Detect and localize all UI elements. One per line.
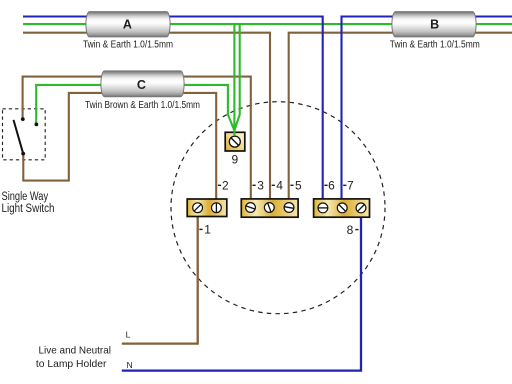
switch contact node (brown) xyxy=(21,117,25,121)
terminal block 3 xyxy=(314,199,370,217)
cable sheath A xyxy=(86,12,170,37)
wire: top green earth continuous xyxy=(23,23,512,25)
svg-text:Twin & Earth 1.0/1.5mm: Twin & Earth 1.0/1.5mm xyxy=(390,40,480,51)
wire: top brown from cable A down to terminal 4 xyxy=(23,33,270,199)
label 1 with tick xyxy=(199,228,202,230)
wire: top blue from cable B to node 7 corner xyxy=(342,17,512,199)
wire: brown lamp live from terminal 1 xyxy=(122,217,198,344)
svg-text:C: C xyxy=(137,78,146,92)
wire: blue lamp neutral from terminal 8 xyxy=(122,217,361,371)
wire: switch brown loop to terminal 2 xyxy=(23,93,216,199)
svg-text:5: 5 xyxy=(295,179,302,193)
label 5 with tick xyxy=(290,184,293,186)
wire: cable C top brown from switch to terminal 3 xyxy=(23,77,251,200)
switch lever xyxy=(14,120,24,153)
wire: green earth from cable C into terminal 9 xyxy=(36,85,234,131)
ceiling rose dashed circle xyxy=(171,102,385,314)
wire: top brown from cable B down to terminal 5 xyxy=(289,33,512,199)
svg-text:Twin Brown & Earth 1.0/1.5mm: Twin Brown & Earth 1.0/1.5mm xyxy=(85,100,200,111)
svg-text:6: 6 xyxy=(328,179,335,193)
label 4 with tick xyxy=(272,184,275,186)
svg-text:Light Switch: Light Switch xyxy=(2,203,55,215)
svg-text:Live and Neutral: Live and Neutral xyxy=(39,344,112,356)
svg-text:4: 4 xyxy=(276,179,283,193)
svg-text:9: 9 xyxy=(231,153,238,167)
label 7 with tick xyxy=(343,184,346,186)
wire: green earth drop from top (A side) into terminal 9 xyxy=(233,24,235,135)
svg-text:N: N xyxy=(127,360,133,370)
svg-text:3: 3 xyxy=(257,179,264,193)
terminal block 1 xyxy=(187,199,227,217)
svg-text:L: L xyxy=(126,330,131,340)
svg-text:7: 7 xyxy=(347,179,354,193)
switch pivot node xyxy=(21,152,25,156)
switch dashed enclosure xyxy=(3,109,46,160)
terminal block 2 xyxy=(241,199,298,217)
label 6 with tick xyxy=(324,184,327,186)
label 3 with tick xyxy=(253,184,256,186)
svg-text:A: A xyxy=(123,17,132,31)
svg-text:Twin & Earth 1.0/1.5mm: Twin & Earth 1.0/1.5mm xyxy=(83,40,173,51)
wire: top blue from cable A to node 6 corner xyxy=(23,17,323,199)
cable sheath B xyxy=(392,12,476,37)
svg-text:2: 2 xyxy=(222,179,229,193)
cable sheath C xyxy=(101,71,184,97)
svg-text:Single Way: Single Way xyxy=(2,191,49,203)
label 2 with tick xyxy=(218,184,221,186)
switch contact node (green) xyxy=(35,123,39,127)
svg-text:B: B xyxy=(430,17,439,31)
svg-text:8: 8 xyxy=(347,223,354,237)
wire: green earth drop from top (B side) into terminal 9 xyxy=(234,24,239,130)
svg-text:1: 1 xyxy=(204,223,211,237)
terminal 9 earth block xyxy=(225,132,245,151)
svg-text:to Lamp Holder: to Lamp Holder xyxy=(36,358,107,370)
